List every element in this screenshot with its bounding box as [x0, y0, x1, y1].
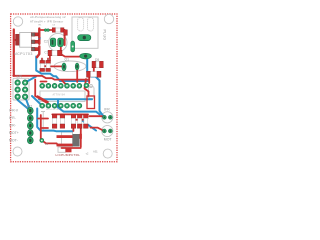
- svg-text:C1: C1: [44, 50, 48, 54]
- svg-text:IFR-: IFR-: [9, 124, 17, 128]
- svg-text:MCP1703: MCP1703: [14, 52, 33, 56]
- svg-text:Q1: Q1: [65, 57, 70, 61]
- svg-text:IFR: IFR: [104, 108, 110, 112]
- svg-text:HOT: HOT: [25, 105, 32, 109]
- svg-text:MOT+: MOT+: [9, 131, 19, 135]
- svg-text:ATtiny84 + IFR Sensor: ATtiny84 + IFR Sensor: [30, 20, 63, 24]
- svg-text:IFR-V: IFR-V: [9, 109, 19, 113]
- svg-text:MOT-: MOT-: [9, 138, 19, 142]
- svg-text:C2: C2: [44, 39, 48, 43]
- svg-text:ATTINY84: ATTINY84: [53, 93, 66, 96]
- svg-text:PLUG: PLUG: [102, 30, 106, 41]
- svg-text:IFR-: IFR-: [9, 116, 17, 120]
- svg-text:AS1: AS1: [93, 150, 98, 153]
- svg-text:S0 S1 IFL IFR: S0 S1 IFL IFR: [46, 109, 60, 111]
- svg-text:MOT: MOT: [104, 137, 113, 141]
- svg-text:LICPUMPCTRL: LICPUMPCTRL: [56, 153, 81, 157]
- svg-text:uC-Pumpensteuerung v2: uC-Pumpensteuerung v2: [30, 15, 66, 19]
- svg-text:D5: D5: [95, 58, 99, 62]
- svg-text:SPI: SPI: [16, 75, 22, 79]
